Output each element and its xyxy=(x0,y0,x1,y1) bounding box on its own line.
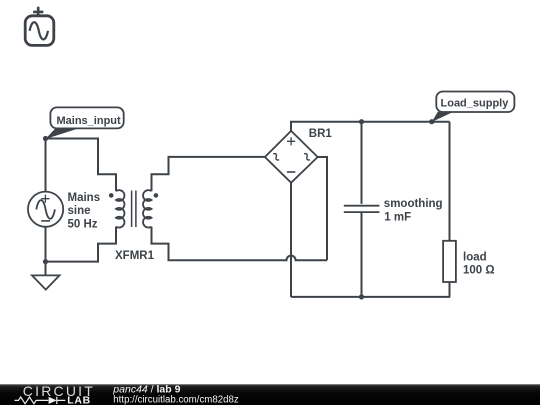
wire resistor bottom lead xyxy=(449,282,451,297)
svg-text:50 Hz: 50 Hz xyxy=(68,218,98,230)
wire bridge right lead xyxy=(318,157,327,260)
svg-text:Mains: Mains xyxy=(68,192,101,204)
svg-text:LAB: LAB xyxy=(67,395,91,405)
svg-text:Load_supply: Load_supply xyxy=(441,98,510,110)
svg-text:1 mF: 1 mF xyxy=(384,211,411,223)
voltage source sine xyxy=(36,200,55,219)
corner icon box xyxy=(25,16,54,46)
wire bridge minus lead xyxy=(290,183,292,297)
transformer phase dot left xyxy=(109,193,114,198)
resistor body xyxy=(443,241,456,282)
svg-text:smoothing: smoothing xyxy=(384,198,443,210)
wire resistor top lead xyxy=(449,122,451,241)
wire source bottom lead xyxy=(45,227,47,262)
capacitor plates xyxy=(344,206,380,212)
wire capacitor top lead xyxy=(361,122,363,204)
flag Load_supply tail xyxy=(432,112,454,122)
logo zigzag and diode xyxy=(15,397,49,404)
svg-text:http://circuitlab.com/cm82d8z: http://circuitlab.com/cm82d8z xyxy=(113,395,239,405)
bridge ac mark right xyxy=(303,153,311,161)
wire secondary top xyxy=(152,157,265,191)
voltage source plus xyxy=(41,195,49,203)
wire primary bottom xyxy=(46,227,117,262)
voltage source V1 circle xyxy=(28,192,63,227)
ground xyxy=(32,275,60,289)
wire bottom rail xyxy=(291,296,450,298)
bridge ac mark left xyxy=(272,153,280,161)
flag Mains_input tail xyxy=(46,128,80,139)
svg-text:BR1: BR1 xyxy=(309,128,333,140)
junction node at ground xyxy=(43,259,48,264)
bridge rectifier BR1 diamond xyxy=(265,131,318,183)
corner icon plus xyxy=(33,7,43,17)
transformer XFMR1 right winding xyxy=(143,190,151,227)
bridge plus mark xyxy=(287,137,295,145)
footer bar xyxy=(0,384,540,405)
flag Mains_input box xyxy=(50,107,123,128)
wire secondary bottom with hop xyxy=(152,227,328,261)
corner icon sine xyxy=(30,22,48,39)
transformer XFMR1 left winding xyxy=(116,190,124,227)
junction node at Mains_input xyxy=(43,136,48,141)
svg-text:Mains_input: Mains_input xyxy=(57,115,122,127)
wire source top lead xyxy=(45,139,47,192)
svg-text:load: load xyxy=(463,252,487,264)
wire primary top xyxy=(46,139,117,192)
junction node at Load_supply xyxy=(429,119,434,124)
svg-text:100 Ω: 100 Ω xyxy=(463,265,495,277)
junction node cap bottom xyxy=(359,294,364,299)
bridge minus mark xyxy=(287,171,295,173)
wire ground lead xyxy=(45,262,47,276)
transformer phase dot right xyxy=(154,193,159,198)
junction node cap top xyxy=(359,119,364,124)
wire capacitor bottom lead xyxy=(361,213,363,297)
wire bridge plus lead and top rail xyxy=(291,122,450,131)
voltage source minus xyxy=(41,220,50,222)
flag Load_supply box xyxy=(436,92,514,113)
svg-text:XFMR1: XFMR1 xyxy=(115,250,155,262)
transformer core xyxy=(132,191,136,228)
svg-text:sine: sine xyxy=(68,205,91,217)
